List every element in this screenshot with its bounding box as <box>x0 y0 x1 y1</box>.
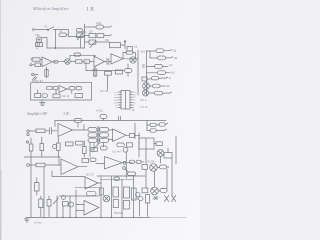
bus y179.5 <box>102 179 134 181</box>
resistor R13 vertical <box>45 70 48 77</box>
resistor R3 <box>85 34 112 38</box>
svg-text:100k: 100k <box>96 23 102 25</box>
wires T1 to U6 <box>109 130 113 140</box>
diode pair D1 <box>136 192 143 216</box>
resistor R23 <box>100 146 107 150</box>
wire mic right <box>42 37 47 48</box>
ladder row 3 ticks <box>143 65 145 67</box>
component on rail C11 <box>100 115 107 121</box>
svg-text:out: out <box>134 46 138 49</box>
resistor R33 vertical <box>39 196 43 217</box>
wire top y82.5 <box>31 82 92 84</box>
svg-text:BC109: BC109 <box>148 162 156 164</box>
rail x126.3 <box>125 152 127 178</box>
capacitor C3 <box>107 59 111 65</box>
svg-text:1 R.: 1 R. <box>86 7 95 13</box>
top rail y120.5 <box>55 120 166 122</box>
rail x122 <box>121 180 123 218</box>
right top row A: oval pair with arrows <box>147 123 168 127</box>
faint bus extension <box>150 217 186 219</box>
ladder row 5: box + resistor <box>142 76 168 81</box>
bus y176 <box>97 175 145 177</box>
small comps below junction <box>123 167 129 172</box>
relay box K1 <box>110 43 126 48</box>
op-amp U5 <box>58 124 84 137</box>
svg-text:Mikrofon Amplifier: Mikrofon Amplifier <box>32 6 69 11</box>
title 1 handwriting <box>32 6 95 13</box>
feedback bus y70 <box>86 70 124 72</box>
input terminal J2 <box>30 63 42 66</box>
resistor RL5 <box>153 84 166 88</box>
svg-text:4k7: 4k7 <box>169 65 173 67</box>
oval Rb3 <box>67 87 82 90</box>
resistor R2 oval <box>85 25 112 29</box>
vertical stub x95 below U2 <box>94 67 96 77</box>
microphone MIC1 <box>36 37 42 43</box>
capacitor C4 below <box>125 64 133 77</box>
junction on U8 output <box>123 161 126 164</box>
resistor R35a vertical <box>113 187 119 197</box>
input terminal J1 <box>33 28 48 31</box>
svg-text:4k7: 4k7 <box>31 58 36 61</box>
below T1: vertical stubs <box>90 143 104 158</box>
ground G2 <box>25 218 30 223</box>
ladder rail x146.5 <box>146 51 148 97</box>
short rail x63 <box>62 206 64 218</box>
title 2 handwriting <box>26 111 70 116</box>
resistor R9 above U3 <box>123 51 136 59</box>
IC1 left labels <box>114 92 119 110</box>
resistor R11 <box>105 72 112 91</box>
transformer T1 secondary <box>100 128 109 143</box>
feedback resistor R8 <box>70 53 95 59</box>
transistor Q1 stage <box>63 59 70 65</box>
svg-text:+15V: +15V <box>140 51 146 54</box>
ladder labels right <box>166 51 178 89</box>
resistor R10 vertical <box>93 69 97 76</box>
transistor Q3 <box>143 83 153 90</box>
svg-text:S1: S1 <box>45 25 49 28</box>
cluster box right of K1 <box>127 47 133 52</box>
resistor R27 vertical + circle <box>53 137 61 157</box>
IC2 block <box>139 138 154 149</box>
vertical right x91.5 <box>91 83 93 101</box>
bus y100 <box>31 99 92 101</box>
svg-text:9V: 9V <box>36 48 39 50</box>
terminal T <box>26 141 28 143</box>
page shading left edge <box>0 0 1 240</box>
right column small box <box>130 134 141 138</box>
svg-text:6k8: 6k8 <box>166 86 170 88</box>
right rails verticals <box>146 169 167 189</box>
note text right <box>140 99 148 109</box>
boxes right of U7 <box>82 158 96 163</box>
bottom left rails <box>31 157 76 218</box>
resistor R22 <box>91 148 97 152</box>
transistor Q6 <box>103 195 110 202</box>
marks below Q9 <box>154 197 157 200</box>
svg-text:TBA 810: TBA 810 <box>114 212 124 215</box>
op-amp U2 <box>94 56 107 67</box>
op-amp U1 <box>42 57 56 67</box>
resistor R4 + trimmer <box>85 40 100 48</box>
wire y42 to right <box>99 41 110 43</box>
resistor R37 vertical <box>146 195 150 217</box>
box top right K2 <box>164 148 172 158</box>
oval Rb2 <box>53 86 58 89</box>
IC1 block <box>121 91 130 110</box>
right row Q9 <box>142 187 158 195</box>
rail x111.5 <box>111 176 113 218</box>
svg-text:1 R.: 1 R. <box>63 111 70 116</box>
wires into transformer <box>84 125 88 131</box>
junction dot <box>55 47 56 48</box>
wire bus y48 <box>47 47 85 49</box>
svg-text:1k: 1k <box>169 78 172 80</box>
arrow node x125 <box>124 41 126 49</box>
labels above R2 R3 <box>89 23 110 42</box>
resistor R38 vertical upper <box>35 178 40 196</box>
ladder row 4 resistor RL4 <box>147 71 171 75</box>
box on rail x101 <box>99 188 103 195</box>
oval R42 above bus <box>128 172 136 176</box>
IC1 right labels <box>133 92 136 110</box>
svg-text:IC1 741: IC1 741 <box>100 90 109 93</box>
oval on rail <box>114 177 120 181</box>
right row Q8 <box>142 164 157 172</box>
cap C12 + transistor <box>123 143 132 152</box>
resistor R1 oval <box>59 33 68 37</box>
trimmer box P0 <box>77 31 85 41</box>
transistor Q4 <box>143 90 155 96</box>
right rails <box>146 136 176 196</box>
ground bus y216.5 <box>26 217 150 219</box>
oval Rb1 <box>46 86 52 89</box>
terminal with box lower-left <box>32 73 38 80</box>
svg-text:M 172: M 172 <box>85 173 94 177</box>
below U6: oval R24 <box>117 143 125 147</box>
resistor R35b vertical <box>113 200 118 208</box>
svg-text:Amplifier HF: Amplifier HF <box>26 112 48 116</box>
input terminal J4 <box>27 164 36 167</box>
oval R41 <box>136 160 144 163</box>
ladder row 2 resistor RL2 <box>150 51 173 60</box>
resistor R7 <box>82 60 94 63</box>
IC1 right pins <box>130 92 133 108</box>
wire to U8 <box>96 163 105 165</box>
input resistor R5 <box>32 58 42 61</box>
feedback resistor R21 <box>74 119 82 128</box>
resistor R25 right of IC2 <box>154 142 162 146</box>
connections verticals <box>38 90 72 95</box>
boxes horizontal y142-146 <box>66 141 84 146</box>
bus y196 left <box>59 195 99 197</box>
right top row B: oval with arrow <box>147 129 167 132</box>
vertical from rail left <box>54 121 56 127</box>
transformer T1 core <box>98 127 99 144</box>
bus y157 <box>24 156 60 158</box>
ladder row 3 resistor RL3 <box>147 65 169 69</box>
vertical x86 <box>85 62 87 71</box>
resistor R36b vertical <box>124 201 130 210</box>
resistor R20 <box>36 129 49 133</box>
svg-text:out2: out2 <box>114 101 119 104</box>
supply rail x84.5 <box>84 24 86 48</box>
wire bend x68.3 <box>68 30 84 37</box>
ground G1 <box>40 100 46 106</box>
oval right of Q8 <box>157 165 169 169</box>
resistor R28 vertical right <box>83 141 87 157</box>
bottom row: rail x30.7 <box>30 83 32 100</box>
input terminals J3 <box>27 130 36 136</box>
op-amp U6 <box>113 129 130 142</box>
switch S1 <box>47 27 68 31</box>
transformer T1 primary <box>88 128 97 143</box>
svg-text:s 4011: s 4011 <box>96 111 103 113</box>
svg-text:0 V out: 0 V out <box>34 222 42 225</box>
rail y187.5 short <box>75 187 99 189</box>
vertical x80.5 to bus <box>80 38 82 49</box>
op-amp U9 <box>85 177 101 189</box>
transistor Q2 <box>130 57 136 63</box>
svg-text:2k2: 2k2 <box>171 73 175 75</box>
svg-text:10n 1k: 10n 1k <box>62 95 70 98</box>
svg-text:V-: V- <box>116 108 118 110</box>
transistor Q10 <box>63 202 74 208</box>
op-amp U10 big <box>76 201 99 216</box>
bus junction dots <box>62 217 134 218</box>
verticals x134-139 <box>135 123 139 157</box>
rail x101 <box>100 177 102 218</box>
resistor R34 vertical <box>47 196 51 217</box>
svg-text:0.1u 4k7: 0.1u 4k7 <box>112 151 122 154</box>
svg-text:1k5: 1k5 <box>173 51 177 53</box>
arrows XX <box>165 196 176 202</box>
battery box B1 <box>35 43 42 47</box>
ladder row 1 resistor RL1 <box>147 49 172 53</box>
resistor R26 vertical <box>40 137 44 157</box>
svg-text:+5v: +5v <box>131 110 136 112</box>
svg-text:out1: out1 <box>114 99 119 102</box>
IC1 left pins <box>119 92 122 108</box>
op-amp U4 small <box>59 86 67 93</box>
op-amp U7 <box>61 159 87 175</box>
op-amp U3 <box>111 54 138 64</box>
vertical x147 <box>146 121 148 131</box>
oval R30 <box>87 191 97 195</box>
resistor RL6 <box>155 91 172 95</box>
svg-text:R in k: R in k <box>140 99 147 102</box>
capacitor C1 oval <box>77 29 83 32</box>
row of boxes y93-98 <box>35 94 83 98</box>
resistor R6 <box>70 60 82 63</box>
op-amp U8 <box>105 157 133 170</box>
resistor R36a vertical <box>124 187 130 198</box>
feedback y176.5 <box>52 157 85 177</box>
tick marks on rail <box>119 117 121 121</box>
resistor R12 <box>116 70 123 74</box>
svg-text:10k: 10k <box>174 58 179 60</box>
below U1: vertical <box>46 67 48 78</box>
capacitor C10 <box>50 128 58 135</box>
wire vertical x55.5 <box>55 30 57 49</box>
resistor R36c vertical <box>131 188 136 200</box>
resistor R29 <box>36 163 61 167</box>
svg-text:C in uF: C in uF <box>140 106 148 109</box>
left mid components: vertical resistors row y142-152 <box>29 138 33 157</box>
oval right of Q9 <box>158 189 167 193</box>
transistor Q5 below IC2 <box>157 150 164 157</box>
trimmer arrow <box>93 143 100 150</box>
output oval on U1 <box>54 60 64 63</box>
vertical rail x138 <box>137 50 139 95</box>
trimmer P1 <box>53 196 65 204</box>
oval R40 <box>129 160 134 163</box>
rail x133.5 <box>133 176 135 218</box>
